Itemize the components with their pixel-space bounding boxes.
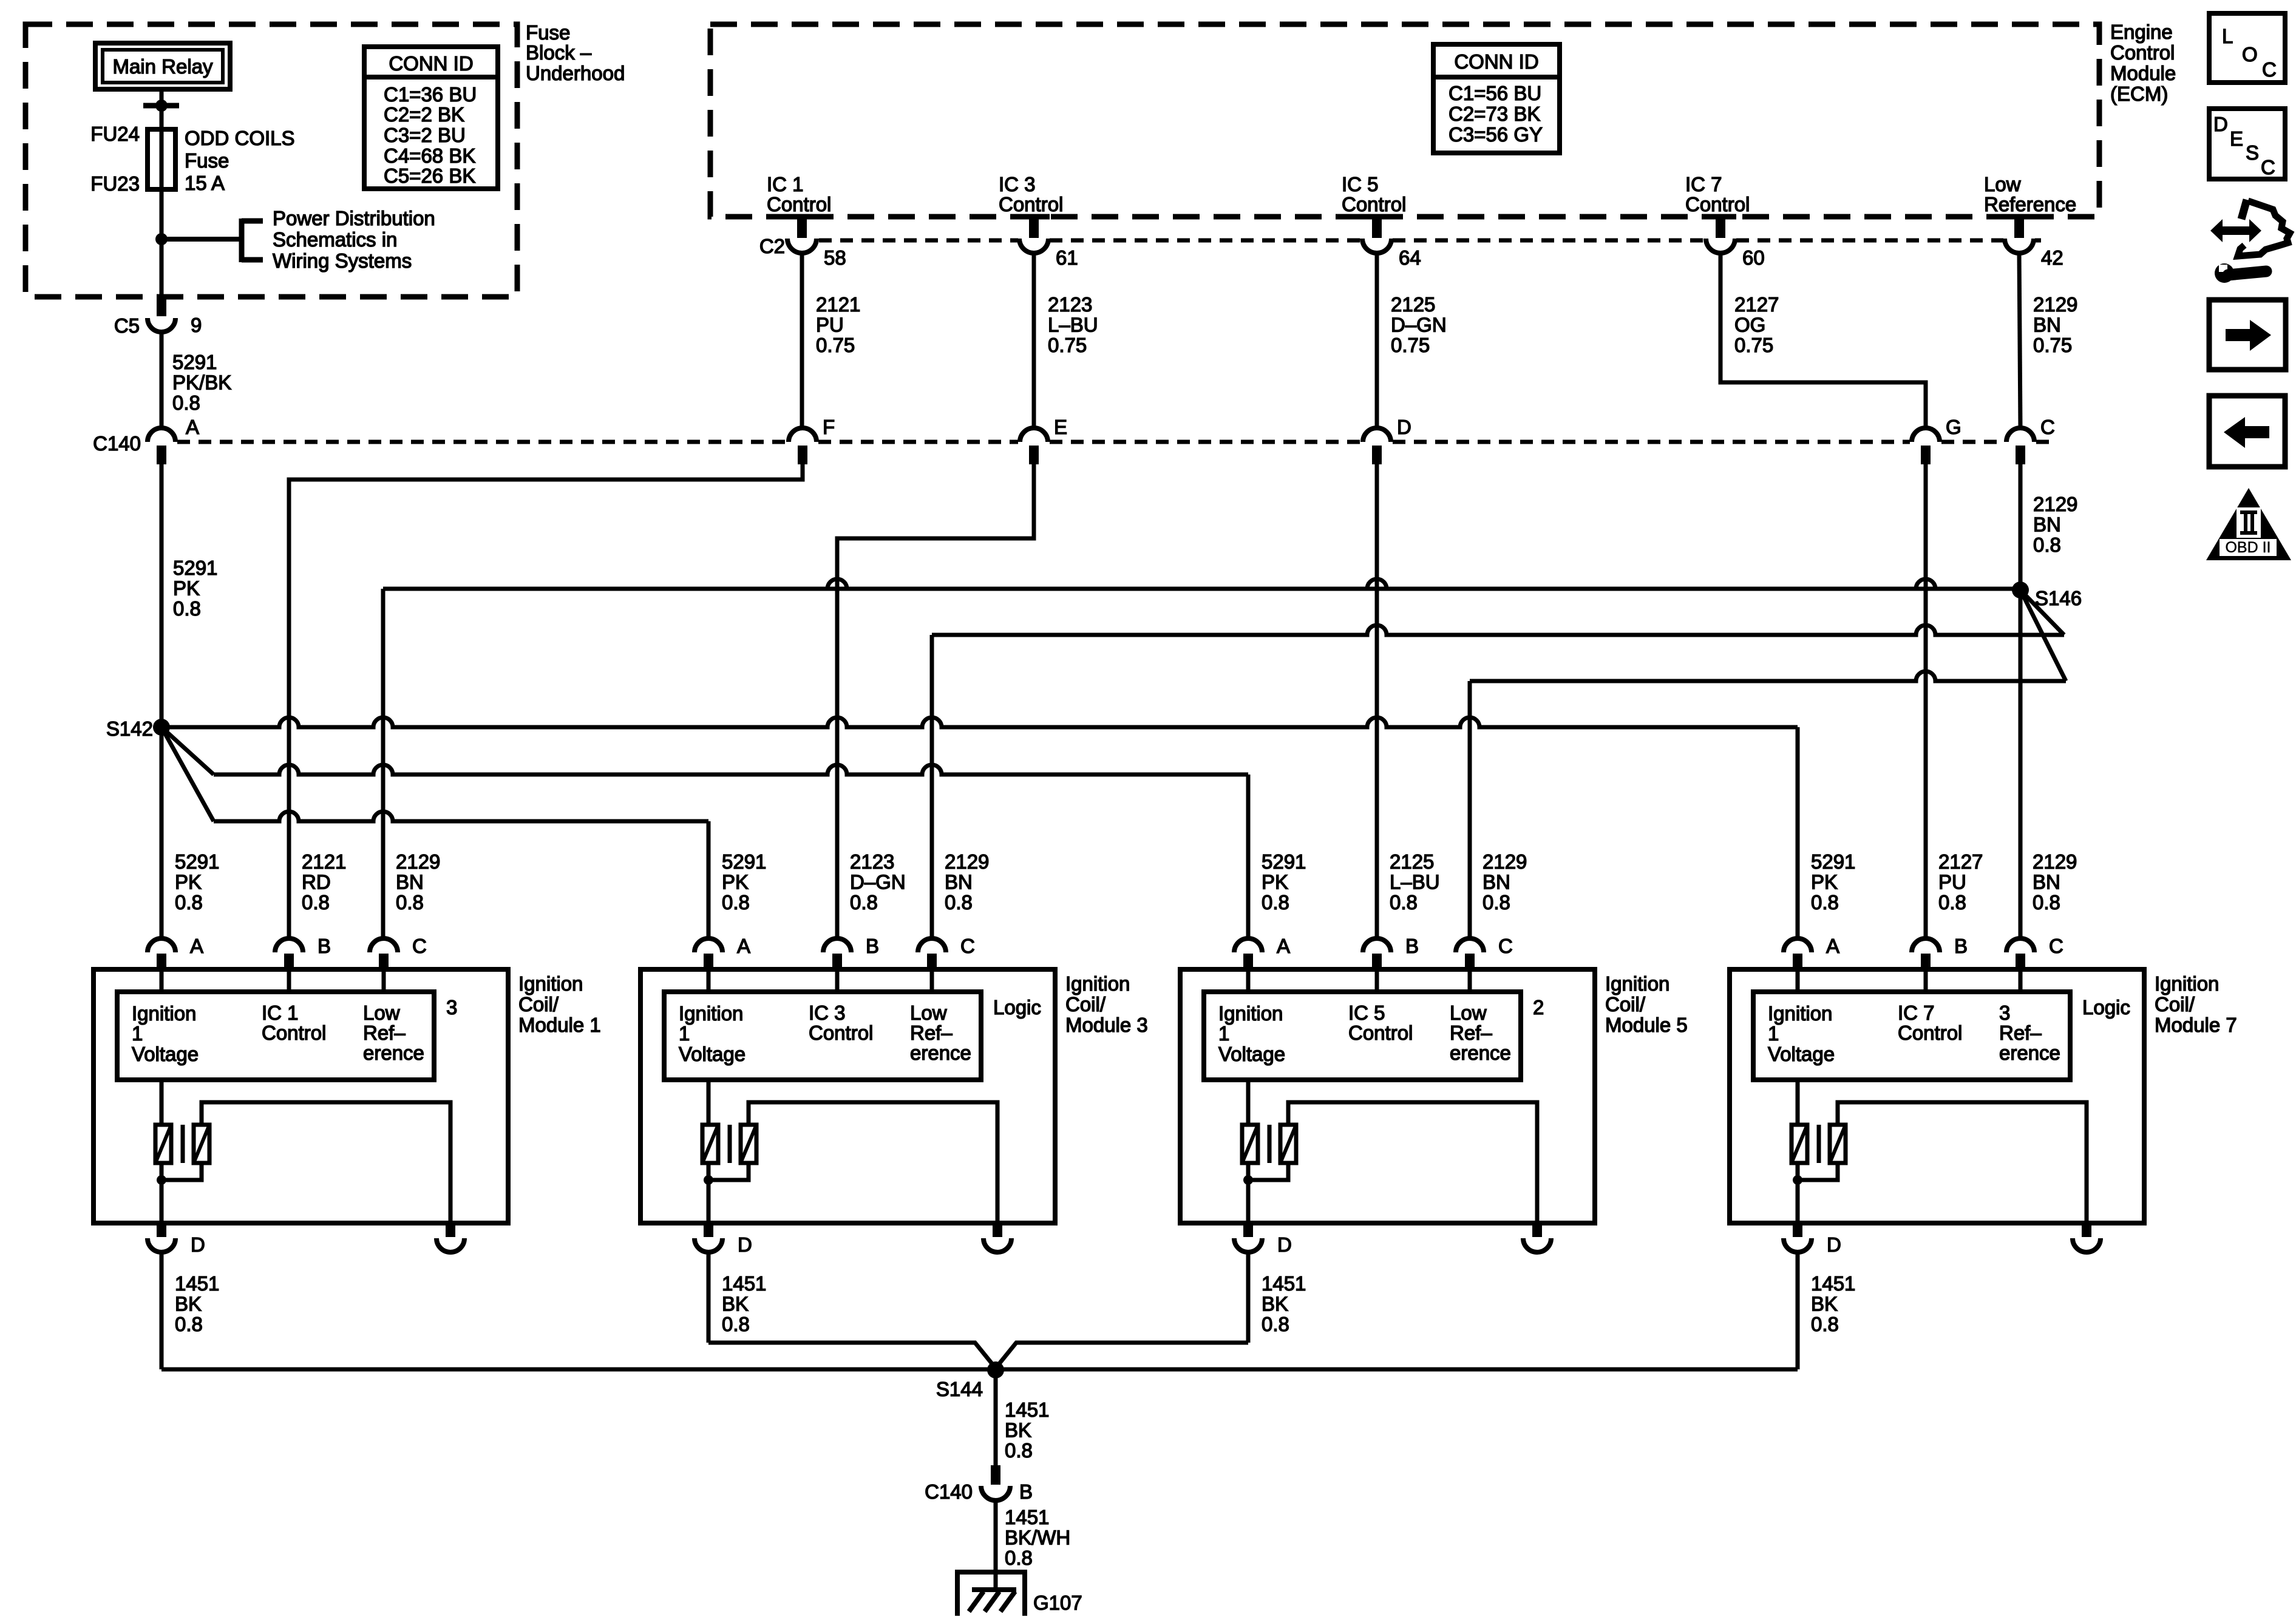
svg-text:2129: 2129 bbox=[2033, 293, 2077, 316]
svg-text:1451: 1451 bbox=[1811, 1272, 1855, 1295]
coil secondary winding bbox=[194, 1125, 209, 1163]
svg-text:Control: Control bbox=[767, 193, 831, 215]
connector C140 pin G bbox=[1912, 416, 1961, 464]
connector module 1 pin D bbox=[148, 1223, 205, 1256]
connector module 7 pin D bbox=[1784, 1223, 1841, 1256]
label 1451 BK 0.8 bbox=[1811, 1272, 1855, 1335]
label 1451 BK 0.8 (below S144) bbox=[1005, 1398, 1049, 1462]
label 2121 PU 0.75 bbox=[816, 293, 860, 356]
connector module 3 pin A bbox=[695, 935, 750, 969]
wire secondary top to output bbox=[1838, 1102, 2087, 1223]
label 1451 BK/WH 0.8 bbox=[1005, 1506, 1070, 1569]
wire pin B into box bbox=[1375, 969, 1379, 992]
svg-text:IC 5: IC 5 bbox=[1348, 1002, 1385, 1024]
svg-text:BN: BN bbox=[2033, 313, 2061, 336]
svg-text:A: A bbox=[1277, 935, 1290, 957]
node coil common junction bbox=[1243, 1175, 1253, 1185]
svg-text:PU: PU bbox=[816, 313, 844, 336]
svg-text:Ref–: Ref– bbox=[1450, 1022, 1492, 1044]
svg-text:PK: PK bbox=[1811, 870, 1838, 893]
label ODD COILS Fuse 15 A bbox=[185, 127, 295, 194]
wire 2127 PU 0.8 (C140 G to module7 B) bbox=[1924, 464, 1928, 938]
label IC 1 Control bbox=[767, 173, 831, 215]
connector module 5 secondary output pin bbox=[1523, 1223, 1551, 1252]
label 2129 BN 0.75 bbox=[2033, 293, 2077, 356]
splice S146 bbox=[2012, 581, 2029, 598]
relay Main Relay bbox=[95, 43, 230, 89]
connector ECM C2 pin 58 bbox=[786, 217, 846, 269]
icon back arrow box bbox=[2209, 396, 2285, 467]
label Low Ref- erence bbox=[363, 1002, 424, 1064]
svg-text:RD: RD bbox=[302, 870, 331, 893]
svg-text:0.8: 0.8 bbox=[2033, 534, 2061, 556]
svg-text:5291: 5291 bbox=[722, 850, 766, 873]
coil core bbox=[1268, 1125, 1272, 1163]
label 1451 BK 0.8 bbox=[722, 1272, 766, 1335]
svg-text:2: 2 bbox=[1533, 996, 1544, 1019]
coil primary winding bbox=[702, 1125, 718, 1163]
svg-text:C5: C5 bbox=[114, 314, 140, 337]
svg-text:C: C bbox=[412, 935, 427, 957]
connector C140 dotted line bbox=[177, 440, 787, 444]
svg-text:Voltage: Voltage bbox=[132, 1043, 199, 1065]
connector module 1 pin C bbox=[370, 935, 427, 969]
svg-text:BK: BK bbox=[1811, 1292, 1838, 1315]
connector module 5 pin B bbox=[1363, 935, 1419, 969]
label 2129 BN 0.8 (module3 C) bbox=[945, 850, 989, 914]
svg-text:erence: erence bbox=[363, 1042, 424, 1064]
svg-text:Ref–: Ref– bbox=[1999, 1022, 2042, 1044]
svg-text:S142: S142 bbox=[106, 717, 153, 740]
connector ECM C2 pin 60 bbox=[1705, 217, 1765, 269]
svg-text:E: E bbox=[1054, 416, 1067, 438]
label Low Reference bbox=[1984, 173, 2076, 215]
connector C140 pin A bbox=[148, 416, 199, 464]
svg-text:Ref–: Ref– bbox=[910, 1022, 953, 1044]
svg-text:Schematics in: Schematics in bbox=[273, 228, 397, 251]
fuse FU24/FU23 ODD COILS 15 A bbox=[148, 129, 175, 189]
icon forward arrow box bbox=[2209, 300, 2286, 370]
wire 2125 L-BU 0.8 (C140 D to module5 B) bbox=[1375, 464, 1379, 938]
svg-text:C: C bbox=[2262, 58, 2277, 81]
svg-text:42: 42 bbox=[2041, 246, 2063, 269]
wire relay to fuse bbox=[160, 89, 164, 129]
svg-text:Main Relay: Main Relay bbox=[112, 55, 213, 78]
wire pin A into box bbox=[707, 969, 711, 992]
wire secondary bottom to junction bbox=[708, 1163, 749, 1180]
svg-text:C2=2 BK: C2=2 BK bbox=[384, 103, 464, 126]
svg-text:D: D bbox=[1277, 1233, 1292, 1256]
svg-text:C: C bbox=[2049, 935, 2063, 957]
svg-text:B: B bbox=[1019, 1480, 1033, 1503]
svg-text:2121: 2121 bbox=[302, 850, 346, 873]
svg-text:L–BU: L–BU bbox=[1048, 313, 1098, 336]
wire voltage to primary winding bbox=[160, 1080, 164, 1125]
svg-text:Module 7: Module 7 bbox=[2155, 1014, 2237, 1036]
wire ground bus (module1 D to module7 D) bbox=[161, 1368, 1798, 1372]
svg-text:Underhood: Underhood bbox=[526, 62, 625, 84]
wire low reference to module7 C bbox=[2019, 590, 2023, 938]
svg-text:0.8: 0.8 bbox=[1811, 891, 1839, 914]
svg-text:IC 3: IC 3 bbox=[999, 173, 1036, 195]
svg-text:Module 5: Module 5 bbox=[1605, 1014, 1688, 1036]
svg-text:1: 1 bbox=[679, 1022, 690, 1045]
svg-text:1: 1 bbox=[1218, 1022, 1229, 1045]
svg-text:3: 3 bbox=[446, 996, 457, 1019]
connector ECM C2 pin 61 bbox=[1018, 217, 1078, 269]
svg-text:erence: erence bbox=[1999, 1042, 2060, 1064]
svg-text:Fuse: Fuse bbox=[526, 21, 570, 44]
label Ignition 1 Voltage bbox=[1768, 1002, 1835, 1065]
svg-text:Low: Low bbox=[910, 1002, 947, 1024]
wire 1451 BK 0.8 below pin D bbox=[160, 1252, 164, 1369]
wire 5291 PK to module1 A bbox=[160, 727, 164, 938]
svg-text:Voltage: Voltage bbox=[679, 1043, 746, 1065]
svg-text:Module 3: Module 3 bbox=[1065, 1014, 1148, 1036]
svg-text:1451: 1451 bbox=[1005, 1398, 1049, 1421]
svg-text:2129: 2129 bbox=[1483, 850, 1527, 873]
svg-text:PK/BK: PK/BK bbox=[172, 371, 231, 393]
svg-text:0.8: 0.8 bbox=[945, 891, 973, 914]
svg-text:Voltage: Voltage bbox=[1218, 1043, 1285, 1065]
svg-text:BK: BK bbox=[175, 1292, 202, 1315]
svg-text:Ignition: Ignition bbox=[679, 1002, 743, 1025]
connector C140 pin B bbox=[925, 1465, 1033, 1503]
svg-text:S146: S146 bbox=[2035, 587, 2082, 609]
wire pin C into box bbox=[1468, 969, 1472, 992]
wire voltage to primary winding bbox=[1796, 1080, 1800, 1125]
svg-text:BN: BN bbox=[1483, 870, 1510, 893]
wire pin A into box bbox=[1246, 969, 1251, 992]
svg-text:D: D bbox=[738, 1233, 752, 1256]
CONN ID table (fuse block) bbox=[364, 47, 498, 189]
svg-text:0.8: 0.8 bbox=[1390, 891, 1418, 914]
svg-text:60: 60 bbox=[1742, 246, 1765, 269]
svg-text:Module 1: Module 1 bbox=[518, 1014, 601, 1036]
wire pin A into box bbox=[160, 969, 164, 992]
svg-text:G107: G107 bbox=[1033, 1592, 1082, 1614]
label IC 5 Control bbox=[1348, 1002, 1413, 1044]
svg-text:IC 1: IC 1 bbox=[262, 1002, 299, 1024]
svg-text:1451: 1451 bbox=[722, 1272, 766, 1295]
svg-text:1451: 1451 bbox=[1262, 1272, 1306, 1295]
connector C5 pin 9 bbox=[114, 297, 202, 337]
wire secondary top to output bbox=[202, 1102, 450, 1223]
label 2127 PU 0.8 bbox=[1938, 850, 1983, 914]
svg-text:Logic: Logic bbox=[993, 996, 1041, 1019]
connector module 7 pin B bbox=[1912, 935, 1968, 969]
svg-text:D: D bbox=[2213, 113, 2228, 135]
svg-text:2129: 2129 bbox=[396, 850, 440, 873]
coil core bbox=[181, 1125, 185, 1163]
fuse block underhood dashed box bbox=[25, 24, 517, 297]
label 5291 PK 0.8 (module3 A) bbox=[722, 850, 766, 914]
svg-text:Ignition: Ignition bbox=[1218, 1002, 1283, 1025]
svg-text:C1=36 BU: C1=36 BU bbox=[384, 83, 477, 106]
svg-text:2129: 2129 bbox=[945, 850, 989, 873]
label IC 3 Control bbox=[999, 173, 1063, 215]
label 2129 BN 0.8 (module1 C) bbox=[396, 850, 440, 914]
svg-text:Control: Control bbox=[1685, 193, 1750, 215]
label IC 7 Control bbox=[1898, 1002, 1962, 1044]
svg-text:5291: 5291 bbox=[173, 557, 217, 579]
power distribution reference bracket bbox=[242, 219, 263, 262]
svg-text:0.75: 0.75 bbox=[1391, 334, 1430, 356]
wire 2127 OG 0.75 bbox=[1720, 253, 1926, 428]
wire primary to pin D bbox=[707, 1163, 711, 1223]
svg-text:BK/WH: BK/WH bbox=[1005, 1526, 1070, 1548]
label Ignition Coil/Module 7 bbox=[2155, 972, 2237, 1036]
wire 2129 BN 0.75 bbox=[2019, 253, 2020, 428]
svg-text:C140: C140 bbox=[93, 432, 141, 455]
svg-text:B: B bbox=[866, 935, 879, 957]
svg-text:C140: C140 bbox=[925, 1480, 973, 1503]
svg-text:1451: 1451 bbox=[1005, 1506, 1049, 1528]
svg-text:B: B bbox=[318, 935, 331, 957]
svg-text:0.75: 0.75 bbox=[816, 334, 855, 356]
svg-text:Control: Control bbox=[1342, 193, 1406, 215]
label Fuse Block Underhood bbox=[526, 21, 625, 84]
connector module 7 pin A bbox=[1784, 935, 1839, 969]
svg-text:2123: 2123 bbox=[850, 850, 894, 873]
svg-text:C2=73 BK: C2=73 BK bbox=[1449, 103, 1540, 125]
label 5291 PK 0.8 (module5 A) bbox=[1262, 850, 1306, 914]
coil primary winding bbox=[1242, 1125, 1258, 1163]
ignition coil/module 7 outer box bbox=[1730, 969, 2144, 1223]
module 5 internal terminal box bbox=[1204, 992, 1521, 1080]
svg-text:Power Distribution: Power Distribution bbox=[273, 207, 435, 229]
wire pin B into box bbox=[287, 969, 291, 992]
label Ignition 1 Voltage bbox=[132, 1002, 199, 1065]
svg-text:A: A bbox=[190, 935, 203, 957]
svg-text:0.8: 0.8 bbox=[1005, 1439, 1033, 1462]
svg-text:0.8: 0.8 bbox=[1262, 891, 1289, 914]
connector module 3 pin C bbox=[918, 935, 975, 969]
label 1451 BK 0.8 bbox=[175, 1272, 219, 1335]
wire 2123 D-GN 0.8 (C140 E to module3 B) bbox=[837, 464, 1034, 938]
svg-text:Coil/: Coil/ bbox=[1065, 993, 1106, 1015]
node coil common junction bbox=[157, 1175, 166, 1185]
connector C140 pin C bbox=[2006, 416, 2055, 464]
svg-text:5291: 5291 bbox=[172, 351, 217, 373]
wire voltage to primary winding bbox=[707, 1080, 711, 1125]
svg-text:1: 1 bbox=[1768, 1022, 1779, 1045]
svg-text:Ignition: Ignition bbox=[1605, 972, 1669, 995]
svg-text:L: L bbox=[2222, 25, 2233, 47]
wire module5 D to S144 bbox=[996, 1343, 1248, 1368]
connector module 7 secondary output pin bbox=[2073, 1223, 2101, 1252]
node power distribution tap bbox=[155, 233, 168, 245]
svg-text:Ignition: Ignition bbox=[2155, 972, 2219, 995]
svg-text:FU24: FU24 bbox=[90, 123, 140, 145]
svg-text:PK: PK bbox=[1262, 870, 1288, 893]
svg-text:0.8: 0.8 bbox=[175, 1313, 203, 1335]
label 2129 BN 0.8 (module5 C) bbox=[1483, 850, 1527, 914]
svg-text:Wiring Systems: Wiring Systems bbox=[273, 249, 412, 272]
label 5291 PK 0.8 bbox=[173, 557, 217, 620]
module 3 internal terminal box bbox=[664, 992, 981, 1080]
wire 5291 PK 0.8 (C140 A to S142) bbox=[160, 464, 164, 727]
svg-text:OG: OG bbox=[1734, 313, 1765, 336]
wire fuse to C5 bbox=[160, 189, 164, 297]
label 2125 D-GN 0.75 bbox=[1391, 293, 1447, 356]
svg-text:C: C bbox=[1498, 935, 1513, 957]
label Ignition 1 Voltage bbox=[1218, 1002, 1285, 1065]
svg-text:CONN ID: CONN ID bbox=[389, 52, 473, 75]
wire 1451 BK 0.8 below pin D bbox=[1796, 1252, 1800, 1369]
svg-text:C3=2 BU: C3=2 BU bbox=[384, 124, 466, 146]
svg-text:C3=56 GY: C3=56 GY bbox=[1449, 123, 1543, 146]
svg-text:D: D bbox=[191, 1233, 205, 1256]
wire secondary bottom to junction bbox=[161, 1163, 202, 1180]
svg-text:Ignition: Ignition bbox=[1768, 1002, 1832, 1025]
svg-text:Low: Low bbox=[1450, 1002, 1487, 1024]
svg-text:ODD COILS: ODD COILS bbox=[185, 127, 295, 149]
svg-text:61: 61 bbox=[1056, 246, 1078, 269]
svg-text:S144: S144 bbox=[936, 1378, 983, 1400]
ignition coil/module 5 outer box bbox=[1180, 969, 1595, 1223]
connector module 1 secondary output pin bbox=[436, 1223, 464, 1252]
node relay output junction bbox=[143, 100, 179, 112]
wire secondary bottom to junction bbox=[1798, 1163, 1838, 1180]
svg-text:F: F bbox=[823, 416, 835, 438]
svg-text:A: A bbox=[1826, 935, 1839, 957]
svg-text:0.8: 0.8 bbox=[1005, 1547, 1033, 1569]
connector module 1 pin A bbox=[148, 935, 203, 969]
label Engine Control Module (ECM) bbox=[2110, 21, 2176, 105]
svg-text:2123: 2123 bbox=[1048, 293, 1092, 316]
wire pin B into box bbox=[1924, 969, 1928, 992]
label 2125 L-BU 0.8 bbox=[1390, 850, 1440, 914]
wire secondary top to output bbox=[749, 1102, 997, 1223]
svg-text:IC 7: IC 7 bbox=[1898, 1002, 1935, 1024]
svg-text:0.8: 0.8 bbox=[175, 891, 203, 914]
connector module 3 pin D bbox=[695, 1223, 752, 1256]
connector module 5 pin C bbox=[1456, 935, 1513, 969]
svg-text:2125: 2125 bbox=[1391, 293, 1435, 316]
svg-text:Control: Control bbox=[1348, 1022, 1413, 1044]
svg-text:2129: 2129 bbox=[2033, 493, 2077, 515]
svg-text:Coil/: Coil/ bbox=[1605, 993, 1646, 1015]
wire 2125 D-GN 0.75 bbox=[1375, 253, 1379, 428]
svg-text:D: D bbox=[1827, 1233, 1841, 1256]
svg-text:Low: Low bbox=[363, 1002, 400, 1024]
svg-text:OBD II: OBD II bbox=[2225, 539, 2271, 556]
svg-text:FU23: FU23 bbox=[90, 172, 140, 195]
label 2127 OG 0.75 bbox=[1734, 293, 1779, 356]
svg-text:PU: PU bbox=[1938, 870, 1966, 893]
wire low reference branch to module3 C bbox=[932, 590, 2064, 938]
module 1 internal terminal box bbox=[117, 992, 434, 1080]
wire 2121 RD 0.8 (C140 F to module1 B) bbox=[289, 464, 803, 938]
svg-text:Control: Control bbox=[2110, 41, 2175, 64]
wire 2129 BN 0.8 (C140 C to S146) bbox=[2019, 464, 2023, 590]
svg-text:Control: Control bbox=[999, 193, 1063, 215]
label 1451 BK 0.8 bbox=[1262, 1272, 1306, 1335]
svg-text:PK: PK bbox=[722, 870, 749, 893]
wire low reference branch to module1 C bbox=[383, 579, 2012, 938]
connector module 5 pin D bbox=[1234, 1223, 1292, 1256]
svg-text:5291: 5291 bbox=[1262, 850, 1306, 873]
svg-text:Control: Control bbox=[809, 1022, 873, 1044]
svg-text:E: E bbox=[2230, 127, 2243, 150]
label 2121 RD 0.8 bbox=[302, 850, 346, 914]
svg-text:C5=26 BK: C5=26 BK bbox=[384, 164, 475, 187]
ECM dashed box bbox=[710, 24, 2099, 217]
label Low Ref- erence bbox=[910, 1002, 971, 1064]
module 7 internal terminal box bbox=[1753, 992, 2070, 1080]
label 2129 BN 0.8 (module7 C) bbox=[2033, 850, 2077, 914]
svg-text:Ignition: Ignition bbox=[1065, 972, 1130, 995]
svg-text:0.8: 0.8 bbox=[172, 392, 200, 414]
label Ignition 1 Voltage bbox=[679, 1002, 746, 1065]
label IC 7 Control bbox=[1685, 173, 1750, 215]
label Ignition Coil/Module 3 bbox=[1065, 972, 1148, 1036]
svg-text:IC 3: IC 3 bbox=[809, 1002, 846, 1024]
coil primary winding bbox=[155, 1125, 171, 1163]
svg-text:BN: BN bbox=[2033, 513, 2061, 535]
coil core bbox=[1817, 1125, 1821, 1163]
svg-text:PK: PK bbox=[173, 577, 200, 599]
splice S142 bbox=[153, 719, 170, 736]
svg-text:C: C bbox=[2261, 156, 2275, 178]
wire voltage to primary winding bbox=[1246, 1080, 1251, 1125]
wire tap to bracket bbox=[161, 237, 242, 242]
wire pin C into box bbox=[930, 969, 934, 992]
wire secondary bottom to junction bbox=[1248, 1163, 1288, 1180]
wire 1451 BK 0.8 below pin D bbox=[707, 1252, 711, 1343]
svg-text:G: G bbox=[1946, 416, 1961, 438]
label Ignition Coil/Module 5 bbox=[1605, 972, 1688, 1036]
svg-text:C: C bbox=[960, 935, 975, 957]
icon OBD II triangle bbox=[2206, 488, 2291, 560]
svg-text:IC 7: IC 7 bbox=[1685, 173, 1722, 195]
svg-text:BN: BN bbox=[396, 870, 424, 893]
svg-text:0.8: 0.8 bbox=[302, 891, 330, 914]
svg-text:Control: Control bbox=[1898, 1022, 1962, 1044]
svg-text:0.8: 0.8 bbox=[850, 891, 878, 914]
coil secondary winding bbox=[741, 1125, 756, 1163]
svg-text:erence: erence bbox=[910, 1042, 971, 1064]
label 5291 PK 0.8 (module7 A) bbox=[1811, 850, 1855, 914]
wire 5291 PK branch to module5 A bbox=[161, 727, 1248, 938]
connector ECM C2 pin 42 bbox=[2003, 217, 2063, 269]
wire 5291 PK/BK 0.8 bbox=[160, 332, 164, 428]
svg-text:0.8: 0.8 bbox=[1938, 891, 1966, 914]
svg-text:Logic: Logic bbox=[2082, 996, 2130, 1019]
svg-text:2127: 2127 bbox=[1938, 850, 1983, 873]
svg-text:0.8: 0.8 bbox=[1262, 1313, 1289, 1335]
svg-text:B: B bbox=[1405, 935, 1419, 957]
wire secondary top to output bbox=[1288, 1102, 1537, 1223]
wire 1451 BK/WH 0.8 (C140 B to G107) bbox=[994, 1500, 998, 1590]
wire primary to pin D bbox=[1246, 1163, 1251, 1223]
svg-text:C: C bbox=[2040, 416, 2055, 438]
svg-text:C4=68 BK: C4=68 BK bbox=[384, 144, 475, 167]
ignition coil/module 1 outer box bbox=[93, 969, 508, 1223]
node coil common junction bbox=[1793, 1175, 1802, 1185]
svg-text:Block –: Block – bbox=[526, 41, 592, 64]
label 2123 L-BU 0.75 bbox=[1048, 293, 1098, 356]
label IC 3 Control bbox=[809, 1002, 873, 1044]
wire pin A into box bbox=[1796, 969, 1800, 992]
svg-text:(ECM): (ECM) bbox=[2110, 83, 2168, 105]
svg-text:0.8: 0.8 bbox=[1811, 1313, 1839, 1335]
svg-text:0.8: 0.8 bbox=[173, 597, 201, 620]
connector C2 dotted line bbox=[819, 239, 1018, 243]
svg-text:D–GN: D–GN bbox=[1391, 313, 1447, 336]
wire 2121 PU 0.75 bbox=[800, 253, 804, 428]
